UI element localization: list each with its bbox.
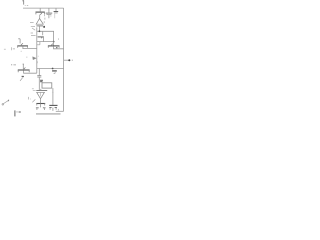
transistor Q4 (right middle) xyxy=(48,42,64,49)
transistor Q2b (middle small) xyxy=(38,31,44,41)
label left of D2 xyxy=(29,97,31,100)
wire A xyxy=(37,31,54,41)
wire box to CR xyxy=(52,88,54,105)
faint dot under Q2 xyxy=(21,51,27,58)
label 8 (right of D1) xyxy=(43,21,45,23)
box component xyxy=(42,83,52,88)
transistor Q2 (left middle) xyxy=(17,39,37,49)
label tick right of Q4 xyxy=(57,38,59,39)
labels 72/74 (left of Q2) xyxy=(4,47,15,50)
label 52 (left of D1) xyxy=(30,23,35,31)
label left of bar xyxy=(32,89,36,91)
transistor Q1 (top) xyxy=(36,8,45,18)
wedge arrow into mid vertical xyxy=(33,57,37,60)
wire B xyxy=(37,41,54,43)
capacitor CL (bottom left) xyxy=(36,104,46,111)
junction dot A xyxy=(53,41,55,43)
leader 62 xyxy=(32,99,35,102)
ground rail bottom xyxy=(36,113,61,115)
transistor Q3 (left lower) xyxy=(18,64,37,73)
label 100 (bottom-left text) xyxy=(15,110,21,116)
inline capacitor on lower vertical xyxy=(37,69,41,91)
junction dot B xyxy=(52,68,54,70)
wire VDD rail xyxy=(23,7,64,9)
label 60 (dark, right of lower vertical) xyxy=(40,80,43,81)
label 50 (above Q2) xyxy=(31,33,36,35)
bar above D2 xyxy=(36,90,47,92)
label 70 (dark text) xyxy=(52,70,57,72)
output dot xyxy=(68,59,70,61)
wire right vertical bus xyxy=(63,8,65,111)
capacitor C1 (rail, x=56) xyxy=(54,8,59,18)
output stub xyxy=(64,59,71,61)
jog step to wire B xyxy=(37,42,40,45)
branch wire at y=68.5 xyxy=(37,68,64,70)
label 66 (dark dot on Q4 tail) xyxy=(56,47,57,49)
label 56 (dark blob under bar right) xyxy=(43,25,45,28)
wire vertical mid (node line) xyxy=(36,27,38,73)
label 76 with dash (left of Q3) xyxy=(11,64,16,66)
capacitor C2 (rail, x=49) xyxy=(45,8,53,20)
node label 1 (top-left numeral) xyxy=(22,0,28,5)
leader arrow bottom-left xyxy=(2,100,9,105)
output tick xyxy=(71,60,73,61)
junction dot D1/A xyxy=(39,30,41,32)
wire bottom right xyxy=(56,110,64,112)
diode D1 (triangle up + bar) xyxy=(36,19,43,32)
capacitor CR (bottom right) xyxy=(49,105,58,111)
leader 78 (diagonal below Q3) xyxy=(20,77,24,81)
diode D2 (triangle down) xyxy=(37,92,45,103)
